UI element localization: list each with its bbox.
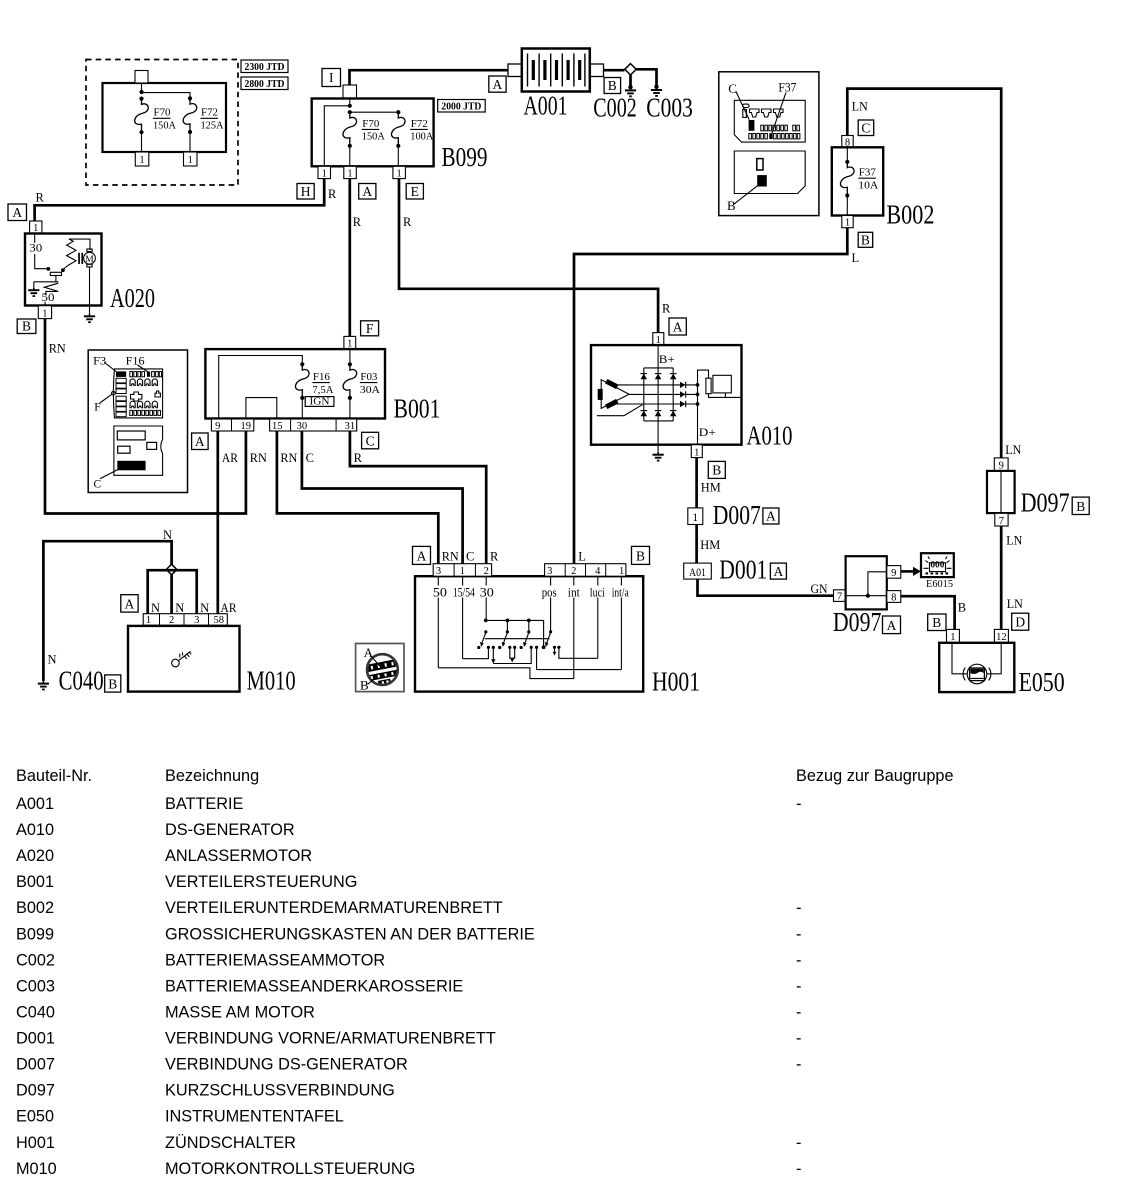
svg-text:2: 2 <box>169 615 174 626</box>
svg-text:MOTORKONTROLLSTEUERUNG: MOTORKONTROLLSTEUERUNG <box>165 1160 415 1178</box>
svg-text:-: - <box>796 899 801 917</box>
svg-text:A: A <box>673 319 683 334</box>
H001 switch mechanism <box>438 619 621 679</box>
connector A (D097A) <box>883 616 901 634</box>
svg-text:AR: AR <box>221 601 238 615</box>
svg-text:R: R <box>662 302 671 316</box>
component table <box>16 767 954 1178</box>
svg-text:-: - <box>796 951 801 969</box>
connector F (B001) <box>361 321 379 336</box>
label IGN <box>305 397 334 408</box>
svg-text:-: - <box>796 1004 801 1022</box>
connector A (B001) <box>192 433 209 450</box>
svg-text:A010: A010 <box>16 821 54 839</box>
A020 pin 1 (top) <box>30 221 42 234</box>
svg-text:B002: B002 <box>16 899 54 917</box>
svg-text:M: M <box>85 255 94 265</box>
svg-text:B001: B001 <box>16 873 54 891</box>
svg-text:2000 JTD: 2000 JTD <box>441 102 481 113</box>
B001 internal wiring <box>219 349 352 419</box>
svg-text:1: 1 <box>347 338 352 349</box>
svg-text:N: N <box>151 601 160 615</box>
svg-text:D+: D+ <box>699 425 716 439</box>
svg-text:30: 30 <box>297 421 308 432</box>
svg-text:RN: RN <box>280 451 297 465</box>
svg-text:30: 30 <box>480 585 494 599</box>
svg-text:RN: RN <box>442 550 459 564</box>
connection D007 <box>688 500 761 530</box>
wire LN D097B to E050 pin 12 <box>1000 526 1003 629</box>
svg-text:RN: RN <box>49 342 66 356</box>
svg-text:C: C <box>306 451 314 465</box>
svg-text:LN: LN <box>1005 443 1021 457</box>
svg-text:B: B <box>22 319 31 334</box>
svg-text:VERBINDUNG VORNE/ARMATURENBRET: VERBINDUNG VORNE/ARMATURENBRETT <box>165 1030 496 1048</box>
svg-text:C: C <box>94 479 102 491</box>
icon E6015 instrument cluster <box>921 553 954 590</box>
svg-text:A020: A020 <box>16 847 54 865</box>
svg-text:ANLASSERMOTOR: ANLASSERMOTOR <box>165 847 312 865</box>
wire battery to B099 top <box>350 70 509 85</box>
svg-text:R: R <box>353 215 362 229</box>
node diamond <box>625 64 636 75</box>
inset pin 1 (right) <box>184 152 198 166</box>
svg-text:2: 2 <box>484 566 489 577</box>
svg-text:N: N <box>48 653 57 667</box>
svg-text:C: C <box>466 550 474 564</box>
svg-text:B099: B099 <box>16 925 54 943</box>
svg-text:B: B <box>958 601 966 615</box>
svg-text:F37: F37 <box>859 168 876 179</box>
svg-text:R: R <box>354 451 363 465</box>
svg-text:VERTEILERUNTERDEMARMATURENBRET: VERTEILERUNTERDEMARMATURENBRETT <box>165 899 503 917</box>
B099 pin 1 (E) <box>393 166 406 179</box>
svg-text:C003: C003 <box>646 93 693 123</box>
wire N branches <box>148 570 197 614</box>
svg-text:F70: F70 <box>362 119 379 130</box>
connector D (E050) <box>1012 613 1029 630</box>
svg-text:B001: B001 <box>394 394 441 424</box>
connector B (H001) <box>632 546 650 564</box>
svg-text:1: 1 <box>322 169 327 180</box>
svg-text:A: A <box>493 77 503 92</box>
svg-text:D097: D097 <box>1021 488 1070 518</box>
svg-text:H001: H001 <box>16 1134 55 1152</box>
fuse holder B002 <box>832 147 935 229</box>
svg-text:B: B <box>360 678 369 693</box>
svg-text:1: 1 <box>146 615 151 626</box>
H001 pin strip A (3,1,2) <box>433 564 491 577</box>
svg-text:1: 1 <box>42 308 47 319</box>
wire labels RN C R (H001) <box>442 550 499 564</box>
svg-text:F3: F3 <box>93 355 106 367</box>
wire LN from B002 up and right down <box>847 89 1001 458</box>
svg-text:1: 1 <box>694 447 699 458</box>
svg-text:10A: 10A <box>858 181 879 192</box>
svg-text:GROSSICHERUNGSKASTEN AN DER BA: GROSSICHERUNGSKASTEN AN DER BATTERIE <box>165 925 535 943</box>
connector I <box>322 69 341 87</box>
icon connector face (A/B) <box>356 644 405 693</box>
instrument panel E050 <box>939 643 1064 697</box>
E050 pin 12 <box>994 629 1008 643</box>
svg-text:R: R <box>328 187 337 201</box>
connector B (C040) <box>105 675 121 692</box>
svg-text:1: 1 <box>139 155 144 166</box>
svg-text:12: 12 <box>996 632 1007 643</box>
svg-text:A: A <box>887 618 897 633</box>
connector B (A020) <box>17 319 36 334</box>
starter motor A020 <box>25 234 155 314</box>
svg-text:C: C <box>861 120 870 135</box>
connector A (M010) <box>121 595 138 612</box>
B099 pin 1 (H) <box>318 166 331 179</box>
wire C B001-30 to H001-1 <box>302 431 463 564</box>
svg-text:F16: F16 <box>313 372 330 383</box>
B099 pin 1 (A) <box>344 166 357 179</box>
svg-text:B: B <box>861 232 870 247</box>
svg-text:A01: A01 <box>689 567 706 579</box>
svg-text:-: - <box>796 1030 801 1048</box>
svg-text:3: 3 <box>436 566 441 577</box>
B099 internal wiring <box>324 99 400 167</box>
fuse location inset (B001 panel) <box>88 350 187 493</box>
svg-text:C003: C003 <box>16 977 55 995</box>
svg-text:M010: M010 <box>16 1160 57 1178</box>
svg-text:DS-GENERATOR: DS-GENERATOR <box>165 821 295 839</box>
wire AR B001-9 to M010-58 <box>216 431 219 614</box>
connector B (battery) <box>604 78 621 94</box>
wire B D097A to E050 <box>901 596 955 629</box>
svg-text:F37: F37 <box>778 79 796 94</box>
wire to C003 <box>636 69 656 85</box>
svg-text:A020: A020 <box>110 283 155 313</box>
connector A (B099) <box>359 184 376 200</box>
svg-text:A: A <box>12 205 22 220</box>
svg-text:-: - <box>796 1056 801 1074</box>
A010 internals <box>597 345 742 452</box>
svg-text:C: C <box>366 433 375 448</box>
connector B (E050) <box>928 614 946 631</box>
fuse F72 (inset) 125A <box>183 98 224 134</box>
connector A (D007) <box>763 508 779 524</box>
svg-text:L: L <box>578 550 586 564</box>
svg-text:A: A <box>362 184 372 199</box>
svg-text:LN: LN <box>852 100 868 114</box>
svg-text:150A: 150A <box>362 132 386 143</box>
battery A001 <box>508 49 604 121</box>
svg-text:B: B <box>727 198 736 213</box>
svg-text:A: A <box>766 509 776 524</box>
A020 internals <box>28 234 95 314</box>
svg-text:19: 19 <box>241 421 252 432</box>
connector A (H001) <box>413 546 431 564</box>
label 2300 JTD <box>241 60 288 73</box>
svg-text:30A: 30A <box>360 385 381 396</box>
node diamond (N) <box>166 564 177 575</box>
D097B pin 7 <box>995 513 1008 527</box>
svg-text:B: B <box>608 78 617 93</box>
wire labels N N N AR (M010) <box>151 601 237 615</box>
svg-text:R: R <box>36 191 45 205</box>
svg-text:3: 3 <box>194 615 199 626</box>
svg-text:1: 1 <box>845 218 850 229</box>
fuse F03 30A <box>343 364 381 400</box>
svg-text:58: 58 <box>213 615 224 626</box>
svg-text:BATTERIEMASSEAMMOTOR: BATTERIEMASSEAMMOTOR <box>165 951 385 969</box>
D097A pin 9 <box>887 566 901 579</box>
svg-text:N: N <box>200 601 209 615</box>
svg-text:50: 50 <box>42 290 55 304</box>
svg-text:1: 1 <box>460 566 465 577</box>
svg-text:LN: LN <box>1007 597 1023 611</box>
fuse F70 150A (B099) <box>343 112 386 148</box>
svg-text:Bezeichnung: Bezeichnung <box>165 767 259 785</box>
ground C002 <box>593 85 637 123</box>
svg-text:E050: E050 <box>1019 667 1065 697</box>
svg-text:BATTERIEMASSEANDERKAROSSERIE: BATTERIEMASSEANDERKAROSSERIE <box>165 977 463 995</box>
svg-text:30: 30 <box>29 241 42 255</box>
ignition switch H001 <box>415 576 700 696</box>
svg-text:F16: F16 <box>126 355 145 367</box>
connector A (battery) <box>489 76 506 92</box>
B001 pin 1 (top) <box>344 336 356 349</box>
svg-text:GN: GN <box>811 582 828 596</box>
connector E <box>406 184 423 200</box>
wire L from B002 to H001 <box>574 228 847 564</box>
svg-text:KURZSCHLUSSVERBINDUNG: KURZSCHLUSSVERBINDUNG <box>165 1082 395 1100</box>
svg-text:INSTRUMENTENTAFEL: INSTRUMENTENTAFEL <box>165 1108 344 1126</box>
wire to C002 <box>629 75 632 86</box>
connector A (A010) <box>669 318 686 335</box>
connector B (D097B) <box>1072 497 1089 514</box>
svg-text:9: 9 <box>215 421 220 432</box>
B002 pin 8 <box>842 136 853 149</box>
svg-text:A: A <box>195 434 205 449</box>
svg-text:4: 4 <box>595 566 601 577</box>
connection D097 B pin 9 <box>994 458 1008 472</box>
wire RN A020 to B001 pin 19 <box>45 319 246 514</box>
svg-text:ZÜNDSCHALTER: ZÜNDSCHALTER <box>165 1134 296 1152</box>
svg-text:LN: LN <box>1006 534 1022 548</box>
ground C003 <box>646 85 693 123</box>
svg-text:D097: D097 <box>833 607 882 637</box>
svg-text:3: 3 <box>547 566 552 577</box>
fuse F72 100A (B099) <box>391 112 434 148</box>
svg-text:C040: C040 <box>59 666 104 696</box>
A010 pin 1 (top) <box>653 333 664 346</box>
connector B (A010) <box>708 461 725 478</box>
svg-text:I: I <box>329 70 334 85</box>
arrow to E6015 <box>901 567 921 576</box>
wire R B001-31 to H001-2 <box>350 431 486 564</box>
svg-text:Bauteil-Nr.: Bauteil-Nr. <box>16 767 92 785</box>
wire HM D007 to D001 <box>695 525 698 564</box>
wire RN B001-15 to H001-3 <box>277 431 438 564</box>
inset pin 1 (left) <box>135 152 149 166</box>
inset wiring <box>139 83 192 152</box>
svg-text:D: D <box>1015 615 1025 630</box>
H001 pin strip B (3,2,4,1) <box>545 564 626 577</box>
svg-text:7: 7 <box>999 516 1004 527</box>
fuse F16 7.5A <box>295 364 334 400</box>
wire battery B to grounds <box>604 69 625 72</box>
B002 pin 1 <box>842 216 853 229</box>
ECU B001 <box>205 349 440 423</box>
svg-text:1: 1 <box>396 169 401 180</box>
svg-text:R: R <box>490 550 499 564</box>
M010 pin strip (1,2,3,58) <box>143 614 227 627</box>
svg-text:BATTERIE: BATTERIE <box>165 795 244 813</box>
svg-text:B+: B+ <box>659 352 675 366</box>
svg-text:150A: 150A <box>153 121 177 132</box>
svg-text:B: B <box>1076 499 1085 514</box>
svg-text:A001: A001 <box>524 91 568 121</box>
svg-text:A: A <box>417 549 427 564</box>
svg-text:15/54: 15/54 <box>453 585 476 599</box>
svg-text:HM: HM <box>700 538 720 552</box>
svg-text:B099: B099 <box>442 142 488 172</box>
svg-text:125A: 125A <box>201 121 225 132</box>
connector A (A020) <box>8 204 27 221</box>
A020 pin 1 (bottom) <box>38 306 51 320</box>
wire GN D001 to D097A <box>698 579 834 596</box>
svg-text:F: F <box>94 402 100 414</box>
svg-text:E6015: E6015 <box>926 579 953 590</box>
svg-text:50: 50 <box>433 585 447 599</box>
wire N bus (M010 pins 1-3 to C040) <box>43 541 171 681</box>
svg-text:F03: F03 <box>360 372 377 383</box>
svg-text:Bezug zur Baugruppe: Bezug zur Baugruppe <box>796 767 954 785</box>
fuse F37 10A <box>840 147 879 215</box>
B001 pin strip C (15,30,31) <box>270 419 357 432</box>
label 2800 JTD <box>241 77 288 90</box>
svg-text:-: - <box>796 977 801 995</box>
svg-text:VERBINDUNG DS-GENERATOR: VERBINDUNG DS-GENERATOR <box>165 1056 408 1074</box>
svg-text:100A: 100A <box>410 132 434 143</box>
svg-text:int: int <box>568 585 580 599</box>
svg-text:B: B <box>712 463 721 478</box>
D097A pin 7 <box>834 590 846 603</box>
svg-text:N: N <box>163 528 172 542</box>
svg-text:-: - <box>796 925 801 943</box>
ground (A020 motor) <box>84 314 95 323</box>
svg-text:1: 1 <box>188 155 193 166</box>
svg-text:1: 1 <box>950 632 955 643</box>
svg-text:15: 15 <box>272 421 283 432</box>
svg-text:H: H <box>301 184 311 199</box>
connection D097 A <box>833 556 887 637</box>
svg-text:luci: luci <box>590 585 605 599</box>
svg-text:B: B <box>932 615 941 630</box>
svg-text:HM: HM <box>701 481 721 495</box>
ground (A010) <box>653 452 664 461</box>
svg-text:1: 1 <box>692 512 698 524</box>
fuse F70 (inset) 150A <box>135 99 177 135</box>
svg-text:F72: F72 <box>411 119 428 130</box>
svg-text:E050: E050 <box>16 1108 54 1126</box>
fuse box variant inset (2300/2800 JTD) <box>86 60 238 186</box>
svg-text:D007: D007 <box>713 500 761 530</box>
connector H <box>297 184 314 200</box>
wire R from B099 H to A020 <box>35 179 325 221</box>
wire R B099-E to A010 <box>399 179 658 333</box>
svg-text:9: 9 <box>891 568 896 579</box>
svg-text:F70: F70 <box>154 108 171 119</box>
svg-text:L: L <box>852 251 860 265</box>
svg-text:-: - <box>796 1134 801 1152</box>
svg-text:M010: M010 <box>247 666 296 696</box>
A010 pin 1 (bottom) <box>691 445 702 459</box>
svg-text:C: C <box>728 81 737 96</box>
svg-text:1: 1 <box>347 169 352 180</box>
connection D001 (A01) <box>684 555 768 585</box>
svg-text:int/a: int/a <box>612 585 629 599</box>
svg-text:B002: B002 <box>886 200 934 230</box>
svg-text:R: R <box>403 215 412 229</box>
svg-text:B: B <box>108 676 117 691</box>
svg-text:C002: C002 <box>16 951 55 969</box>
ground C040 <box>38 666 104 696</box>
svg-text:7,5A: 7,5A <box>312 385 334 396</box>
alternator A010 <box>591 345 793 450</box>
wire R B099-A to B001 F <box>348 179 351 337</box>
svg-text:D097: D097 <box>16 1082 55 1100</box>
svg-text:C040: C040 <box>16 1004 55 1022</box>
svg-text:B: B <box>636 549 645 564</box>
svg-text:A: A <box>125 596 135 611</box>
svg-text:IGN: IGN <box>310 397 330 408</box>
svg-text:-: - <box>796 1160 801 1178</box>
svg-text:pos: pos <box>542 585 557 599</box>
svg-text:F72: F72 <box>201 108 218 119</box>
H001 terminal labels <box>431 585 629 599</box>
svg-text:C002: C002 <box>593 93 637 123</box>
fuse location inset (B002 panel) <box>719 72 819 216</box>
svg-text:H001: H001 <box>652 667 700 697</box>
D097A pin 8 <box>887 591 901 604</box>
B001 pin strip A (9,19) <box>211 419 253 432</box>
svg-text:A: A <box>774 564 784 579</box>
label 2000 JTD <box>438 100 486 113</box>
svg-text:AR: AR <box>222 451 239 465</box>
icon key (M010) <box>170 648 193 669</box>
svg-text:D001: D001 <box>16 1030 55 1048</box>
svg-text:N: N <box>175 601 184 615</box>
connector B (B002) <box>858 232 873 247</box>
svg-text:D007: D007 <box>16 1056 55 1074</box>
svg-text:2800 JTD: 2800 JTD <box>245 79 285 90</box>
H001 internal pin leads <box>438 576 621 678</box>
svg-text:000: 000 <box>930 560 945 570</box>
svg-text:2300 JTD: 2300 JTD <box>245 62 285 73</box>
E050 pin 1 <box>947 629 960 643</box>
svg-text:A001: A001 <box>16 795 54 813</box>
svg-text:8: 8 <box>891 592 896 603</box>
connector C (B001) <box>362 432 379 449</box>
svg-text:F: F <box>366 321 374 336</box>
connector C (B002) <box>858 120 874 136</box>
svg-text:31: 31 <box>345 421 356 432</box>
svg-text:MASSE AM MOTOR: MASSE AM MOTOR <box>165 1004 315 1022</box>
connection D097 B <box>987 471 1070 518</box>
connector A (D001) <box>770 563 786 579</box>
wire HM A010 to D007 <box>695 458 698 508</box>
fuse box B099 <box>312 85 488 172</box>
svg-text:2: 2 <box>571 566 576 577</box>
svg-text:A010: A010 <box>747 421 793 451</box>
svg-text:1: 1 <box>619 566 624 577</box>
svg-text:RN: RN <box>250 451 267 465</box>
